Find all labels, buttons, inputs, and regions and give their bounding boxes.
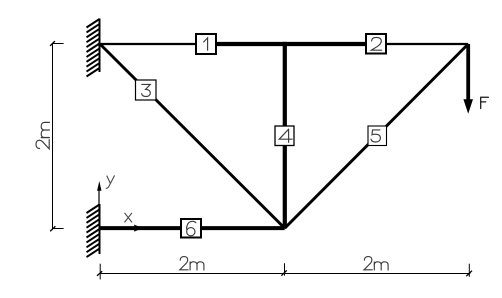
vertical dimension line 2m (left) (52, 44, 54, 229)
member 2 (top-middle to top-right node) thick part (283, 42, 377, 46)
member 6 (bottom chord, lower support to bottom-middle) (100, 226, 285, 230)
horizontal dimension middle extension (284, 263, 286, 275)
horizontal dimension right extension (468, 264, 470, 277)
member 5 (diagonal, bottom-middle to top-right) (285, 44, 469, 228)
member 4 (vertical, top-middle to bottom-middle) (283, 44, 287, 228)
vertical dimension top stub (53, 43, 64, 45)
member 5 label box (368, 126, 387, 146)
horizontal dimension left extension (99, 264, 101, 280)
horizontal dimension right tick (466, 271, 472, 277)
force F arrowhead (463, 99, 473, 114)
upper wall support (99, 19, 101, 73)
vertical dimension bottom stub (53, 228, 64, 230)
member 4 label box (275, 126, 294, 146)
vertical dimension text 2m (36, 122, 49, 149)
y axis label (106, 176, 114, 189)
member 2 thin part (376, 43, 468, 45)
force F label (481, 97, 489, 108)
y axis (98, 190, 100, 227)
member 1 (top-left node to top-middle node) thin part (100, 43, 206, 45)
horizontal dimension line (bottom) (100, 273, 470, 275)
digit 4 (279, 129, 292, 142)
force F arrow shaft (466, 44, 470, 101)
lower wall hatching (87, 205, 100, 258)
upper wall hatching (87, 19, 100, 77)
lower wall support (99, 204, 101, 254)
right span text 2m (364, 257, 388, 270)
member 3 label box (136, 80, 157, 100)
member 1 thick part (206, 42, 287, 46)
left span text 2m (180, 257, 204, 270)
member 3 (diagonal, top-left to bottom-middle) (100, 44, 285, 228)
member 2 label box (366, 34, 386, 54)
digit 3 (142, 84, 151, 96)
vertical dimension bottom tick (50, 226, 55, 231)
horizontal dimension left tick (97, 271, 102, 276)
x axis arrowhead (134, 225, 142, 232)
digit 2 (371, 37, 381, 50)
digit 6 (187, 221, 196, 236)
member 6 label box (181, 219, 201, 238)
horizontal dimension middle tick (281, 270, 286, 275)
y axis arrowhead (97, 181, 101, 191)
digit 1 (204, 38, 208, 50)
x axis label (125, 213, 132, 222)
member 1 label box (196, 34, 216, 54)
vertical dimension top tick (50, 41, 55, 46)
digit 5 (371, 130, 380, 142)
